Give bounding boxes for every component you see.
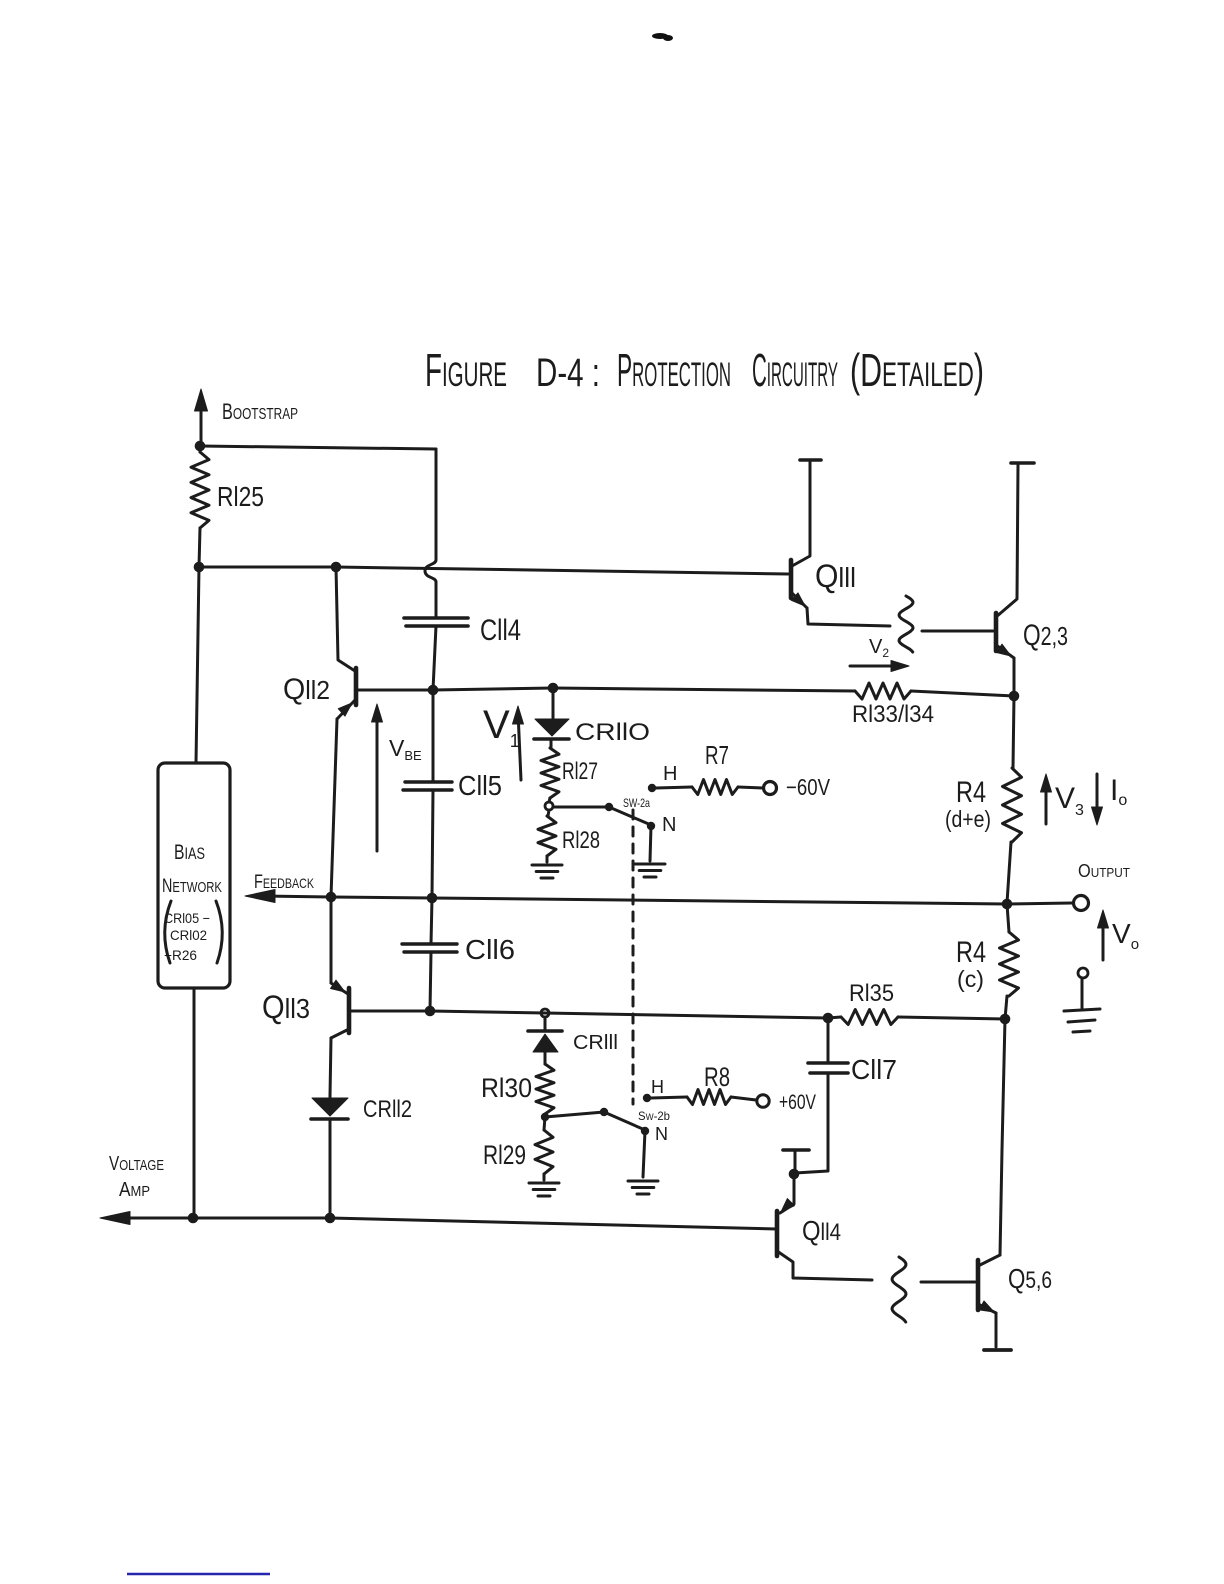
svg-text:Rl27: Rl27 — [562, 758, 598, 785]
svg-text:Qlll: Qlll — [815, 558, 856, 594]
svg-text:Qll4: Qll4 — [802, 1215, 841, 1246]
svg-text:Cll7: Cll7 — [851, 1054, 897, 1085]
svg-text:Rl25: Rl25 — [217, 481, 264, 512]
svg-text:Q5,6: Q5,6 — [1008, 1263, 1052, 1294]
svg-text:Rl33/l34: Rl33/l34 — [852, 701, 934, 728]
svg-text:Qll3: Qll3 — [262, 989, 310, 1025]
svg-text:Cll6: Cll6 — [465, 934, 515, 965]
svg-text:BIAS: BIAS — [174, 841, 205, 864]
svg-text:D-4 :: D-4 : — [536, 351, 600, 395]
svg-text:CRlll: CRlll — [573, 1032, 618, 1054]
svg-text:CRl02: CRl02 — [170, 927, 207, 943]
svg-text:Qll2: Qll2 — [283, 673, 330, 706]
svg-text:Rl30: Rl30 — [481, 1073, 532, 1103]
svg-text:(d+e): (d+e) — [945, 806, 991, 832]
svg-text:SW-2a: SW-2a — [623, 796, 650, 810]
svg-text:R4: R4 — [956, 776, 986, 809]
svg-text:R4: R4 — [956, 936, 986, 969]
svg-text:H: H — [651, 1077, 664, 1097]
svg-text:Q2,3: Q2,3 — [1023, 619, 1068, 652]
svg-text:Cll5: Cll5 — [458, 770, 502, 801]
svg-text:R7: R7 — [705, 740, 729, 770]
svg-text:+60V: +60V — [779, 1091, 816, 1114]
svg-text:CRllO: CRllO — [575, 719, 650, 746]
svg-text:−60V: −60V — [786, 774, 831, 800]
svg-text:CRl05 −: CRl05 − — [164, 910, 210, 926]
svg-text:Rl35: Rl35 — [849, 980, 894, 1007]
svg-text:VOLTAGE: VOLTAGE — [109, 1153, 164, 1175]
svg-text:Rl28: Rl28 — [562, 827, 600, 854]
svg-text:(c): (c) — [957, 966, 984, 992]
svg-text:SW-2b: SW-2b — [638, 1109, 670, 1123]
svg-text:N: N — [655, 1124, 668, 1144]
svg-text:FEEDBACK: FEEDBACK — [254, 872, 314, 893]
svg-text:R8: R8 — [704, 1062, 730, 1092]
svg-text:H: H — [663, 763, 677, 785]
svg-text:NETWORK: NETWORK — [162, 876, 222, 897]
svg-text:Cll4: Cll4 — [480, 614, 521, 647]
svg-text:CRll2: CRll2 — [363, 1096, 412, 1123]
svg-text:N: N — [662, 814, 676, 836]
svg-text:Rl29: Rl29 — [483, 1140, 526, 1170]
svg-text:AMP: AMP — [119, 1179, 150, 1201]
